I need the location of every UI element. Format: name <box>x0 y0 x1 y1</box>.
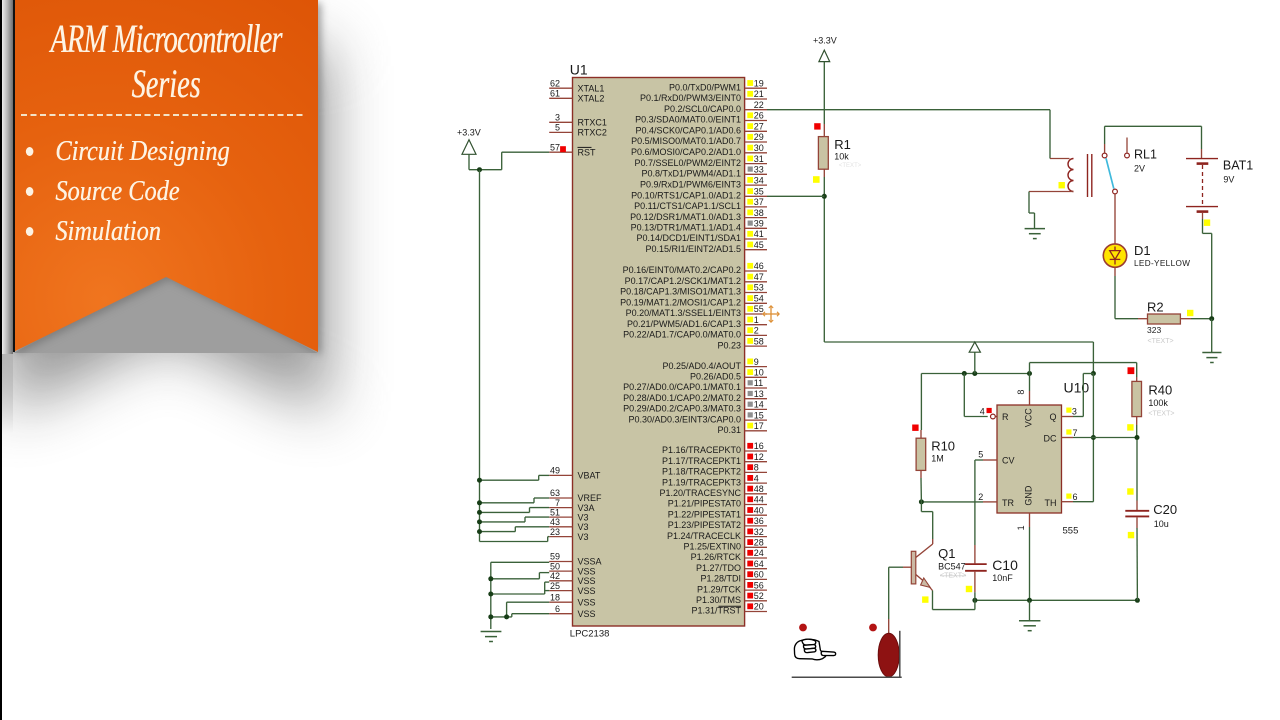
svg-text:P1.21/PIPESTAT0: P1.21/PIPESTAT0 <box>668 499 741 509</box>
svg-text:44: 44 <box>754 495 764 505</box>
svg-text:V3: V3 <box>578 532 589 542</box>
svg-text:39: 39 <box>754 219 764 229</box>
svg-text:U10: U10 <box>1064 380 1090 396</box>
svg-text:21: 21 <box>754 89 764 99</box>
svg-text:<TEXT>: <TEXT> <box>1148 410 1174 417</box>
svg-text:P0.29/AD0.2/CAP0.3/MAT0.3: P0.29/AD0.2/CAP0.3/MAT0.3 <box>623 404 741 414</box>
svg-text:2: 2 <box>978 492 983 502</box>
svg-text:BC547: BC547 <box>938 562 966 572</box>
svg-text:11: 11 <box>754 378 763 388</box>
svg-text:29: 29 <box>754 132 764 142</box>
svg-text:P0.7/SSEL0/PWM2/EINT2: P0.7/SSEL0/PWM2/EINT2 <box>634 158 741 168</box>
svg-text:3: 3 <box>1072 407 1077 417</box>
svg-text:51: 51 <box>550 507 560 517</box>
svg-text:P0.27/AD0.0/CAP0.1/MAT0.1: P0.27/AD0.0/CAP0.1/MAT0.1 <box>623 382 741 392</box>
svg-text:LPC2138: LPC2138 <box>570 629 610 640</box>
svg-text:VSS: VSS <box>578 566 596 576</box>
svg-text:P1.31/TRST: P1.31/TRST <box>691 606 741 616</box>
svg-text:Q1: Q1 <box>938 546 955 561</box>
svg-text:P0.14/DCD1/EINT1/SDA1: P0.14/DCD1/EINT1/SDA1 <box>636 233 741 243</box>
svg-text:25: 25 <box>550 581 560 591</box>
svg-text:P1.24/TRACECLK: P1.24/TRACECLK <box>667 531 741 541</box>
svg-text:33: 33 <box>754 165 764 175</box>
svg-text:1: 1 <box>754 315 759 325</box>
svg-text:+3.3V: +3.3V <box>457 128 481 138</box>
svg-text:3: 3 <box>555 113 560 123</box>
svg-text:R40: R40 <box>1148 382 1172 397</box>
svg-text:VBAT: VBAT <box>578 471 601 481</box>
svg-text:P1.29/TCK: P1.29/TCK <box>697 584 741 594</box>
svg-text:P0.15/RI1/EINT2/AD1.5: P0.15/RI1/EINT2/AD1.5 <box>645 244 741 254</box>
svg-text:1M: 1M <box>931 454 944 464</box>
svg-text:50: 50 <box>550 561 560 571</box>
svg-text:42: 42 <box>550 571 560 581</box>
svg-text:4: 4 <box>980 407 985 417</box>
svg-text:DC: DC <box>1044 434 1057 444</box>
svg-text:TR: TR <box>1002 498 1014 508</box>
svg-text:64: 64 <box>754 559 764 569</box>
svg-text:32: 32 <box>754 527 764 537</box>
svg-text:24: 24 <box>754 548 764 558</box>
svg-text:VSSA: VSSA <box>578 557 602 567</box>
svg-text:VSS: VSS <box>578 576 596 586</box>
svg-text:P1.20/TRACESYNC: P1.20/TRACESYNC <box>659 488 741 498</box>
svg-text:P0.21/PWM5/AD1.6/CAP1.3: P0.21/PWM5/AD1.6/CAP1.3 <box>627 319 741 329</box>
svg-text:P0.17/CAP1.2/SCK1/MAT1.2: P0.17/CAP1.2/SCK1/MAT1.2 <box>625 276 741 286</box>
svg-text:R2: R2 <box>1147 300 1164 315</box>
svg-text:P1.16/TRACEPKT0: P1.16/TRACEPKT0 <box>662 445 741 455</box>
svg-text:8: 8 <box>754 463 759 473</box>
svg-text:17: 17 <box>754 421 764 431</box>
svg-text:31: 31 <box>754 154 764 164</box>
svg-text:V3A: V3A <box>578 503 595 513</box>
svg-text:VSS: VSS <box>578 609 596 619</box>
svg-text:P0.9/RxD1/PWM6/EINT3: P0.9/RxD1/PWM6/EINT3 <box>640 179 741 189</box>
svg-text:XTAL2: XTAL2 <box>578 94 605 104</box>
svg-text:5: 5 <box>555 123 560 133</box>
svg-text:+3.3V: +3.3V <box>813 36 837 46</box>
svg-text:38: 38 <box>754 208 764 218</box>
svg-text:56: 56 <box>754 580 764 590</box>
svg-text:52: 52 <box>754 591 764 601</box>
svg-text:41: 41 <box>754 229 764 239</box>
svg-text:37: 37 <box>754 197 764 207</box>
svg-text:P0.19/MAT1.2/MOSI1/CAP1.2: P0.19/MAT1.2/MOSI1/CAP1.2 <box>620 298 741 308</box>
svg-text:RTXC2: RTXC2 <box>578 128 607 138</box>
svg-text:9: 9 <box>754 357 759 367</box>
svg-text:V3: V3 <box>578 512 589 522</box>
svg-text:R10: R10 <box>931 439 955 454</box>
svg-text:23: 23 <box>550 527 560 537</box>
svg-text:555: 555 <box>1063 526 1079 537</box>
svg-text:P1.23/PIPESTAT2: P1.23/PIPESTAT2 <box>668 520 741 530</box>
svg-text:C20: C20 <box>1153 502 1177 517</box>
svg-text:P0.23: P0.23 <box>717 340 741 350</box>
svg-text:43: 43 <box>550 517 560 527</box>
svg-text:5: 5 <box>978 449 983 459</box>
svg-text:63: 63 <box>550 488 560 498</box>
svg-text:46: 46 <box>754 261 764 271</box>
svg-text:P1.19/TRACEPKT3: P1.19/TRACEPKT3 <box>662 477 741 487</box>
svg-text:8: 8 <box>1016 390 1026 395</box>
svg-text:P0.13/DTR1/MAT1.1/AD1.4: P0.13/DTR1/MAT1.1/AD1.4 <box>631 223 741 233</box>
svg-text:15: 15 <box>754 410 764 420</box>
svg-text:<TEXT>: <TEXT> <box>1148 338 1174 345</box>
svg-text:LED-YELLOW: LED-YELLOW <box>1134 259 1190 268</box>
svg-text:1: 1 <box>1016 525 1026 530</box>
svg-text:61: 61 <box>550 89 560 99</box>
svg-text:13: 13 <box>754 389 764 399</box>
svg-text:P0.31: P0.31 <box>717 425 741 435</box>
svg-text:P1.27/TDO: P1.27/TDO <box>696 563 741 573</box>
svg-text:P0.2/SCL0/CAP0.0: P0.2/SCL0/CAP0.0 <box>664 104 741 114</box>
svg-text:9V: 9V <box>1223 174 1234 184</box>
svg-text:R: R <box>1002 412 1009 422</box>
svg-text:<TEXT>: <TEXT> <box>839 163 862 169</box>
svg-text:TH: TH <box>1045 498 1057 508</box>
svg-text:55: 55 <box>754 304 764 314</box>
svg-text:16: 16 <box>754 441 764 451</box>
svg-text:VSS: VSS <box>578 597 596 607</box>
svg-text:V3: V3 <box>578 522 589 532</box>
svg-text:7: 7 <box>1073 428 1078 438</box>
svg-text:49: 49 <box>550 466 560 476</box>
svg-text:P0.8/TxD1/PWM4/AD1.1: P0.8/TxD1/PWM4/AD1.1 <box>641 169 741 179</box>
svg-text:P1.18/TRACEPKT2: P1.18/TRACEPKT2 <box>662 467 741 477</box>
svg-text:4: 4 <box>754 473 759 483</box>
svg-text:CV: CV <box>1002 456 1015 466</box>
svg-text:19: 19 <box>754 78 764 88</box>
svg-text:D1: D1 <box>1134 243 1151 258</box>
svg-text:P1.25/EXTIN0: P1.25/EXTIN0 <box>683 542 741 552</box>
svg-text:P0.26/AD0.5: P0.26/AD0.5 <box>690 372 741 382</box>
svg-text:27: 27 <box>754 122 764 132</box>
svg-text:26: 26 <box>754 111 764 121</box>
svg-text:BAT1: BAT1 <box>1223 159 1253 173</box>
svg-text:P0.4/SCK0/CAP0.1/AD0.6: P0.4/SCK0/CAP0.1/AD0.6 <box>635 126 741 136</box>
svg-text:P1.26/RTCK: P1.26/RTCK <box>691 552 741 562</box>
svg-text:<TEXT>: <TEXT> <box>940 573 966 580</box>
svg-text:2: 2 <box>754 326 759 336</box>
svg-text:XTAL1: XTAL1 <box>578 83 605 93</box>
svg-text:2V: 2V <box>1134 164 1145 174</box>
svg-text:20: 20 <box>754 602 764 612</box>
svg-text:40: 40 <box>754 505 764 515</box>
svg-text:P1.30/TMS: P1.30/TMS <box>696 595 741 605</box>
svg-text:35: 35 <box>754 187 764 197</box>
svg-text:P0.16/EINT0/MAT0.2/CAP0.2: P0.16/EINT0/MAT0.2/CAP0.2 <box>623 265 741 275</box>
svg-text:P0.6/MOSI0/CAP0.2/AD1.0: P0.6/MOSI0/CAP0.2/AD1.0 <box>631 147 741 157</box>
svg-text:10u: 10u <box>1154 519 1169 529</box>
svg-text:12: 12 <box>754 452 764 462</box>
svg-text:323: 323 <box>1147 325 1161 335</box>
svg-text:60: 60 <box>754 570 764 580</box>
svg-text:P0.0/TxD0/PWM1: P0.0/TxD0/PWM1 <box>669 82 741 92</box>
svg-text:C10: C10 <box>992 557 1018 573</box>
svg-text:54: 54 <box>754 294 764 304</box>
svg-text:10nF: 10nF <box>992 573 1013 583</box>
svg-text:U1: U1 <box>570 62 588 78</box>
svg-text:45: 45 <box>754 240 764 250</box>
svg-text:62: 62 <box>550 78 560 88</box>
svg-text:14: 14 <box>754 400 764 410</box>
svg-text:30: 30 <box>754 143 764 153</box>
svg-text:47: 47 <box>754 272 764 282</box>
svg-text:7: 7 <box>555 498 560 508</box>
svg-text:53: 53 <box>754 283 764 293</box>
svg-text:100k: 100k <box>1148 398 1168 408</box>
svg-text:P0.20/MAT1.3/SSEL1/EINT3: P0.20/MAT1.3/SSEL1/EINT3 <box>626 308 741 318</box>
svg-text:P0.11/CTS1/CAP1.1/SCL1: P0.11/CTS1/CAP1.1/SCL1 <box>634 201 741 211</box>
svg-text:6: 6 <box>555 604 560 614</box>
svg-text:22: 22 <box>754 100 764 110</box>
svg-text:P0.12/DSR1/MAT1.0/AD1.3: P0.12/DSR1/MAT1.0/AD1.3 <box>630 212 741 222</box>
svg-text:P1.22/PIPESTAT1: P1.22/PIPESTAT1 <box>668 509 741 519</box>
svg-text:VCC: VCC <box>1024 408 1034 428</box>
svg-text:58: 58 <box>754 336 764 346</box>
svg-text:RL1: RL1 <box>1134 148 1157 162</box>
svg-text:P0.1/RxD0/PWM3/EINT0: P0.1/RxD0/PWM3/EINT0 <box>640 93 741 103</box>
svg-text:18: 18 <box>550 592 560 602</box>
svg-text:GND: GND <box>1024 485 1034 506</box>
svg-text:48: 48 <box>754 484 764 494</box>
svg-text:P0.30/AD0.3/EINT3/CAP0.0: P0.30/AD0.3/EINT3/CAP0.0 <box>628 414 741 424</box>
svg-text:RTXC1: RTXC1 <box>578 118 607 128</box>
svg-text:6: 6 <box>1073 492 1078 502</box>
svg-text:P0.28/AD0.1/CAP0.2/MAT0.2: P0.28/AD0.1/CAP0.2/MAT0.2 <box>623 393 741 403</box>
svg-text:34: 34 <box>754 175 764 185</box>
svg-text:10k: 10k <box>834 152 849 162</box>
svg-text:P0.18/CAP1.3/MISO1/MAT1.3: P0.18/CAP1.3/MISO1/MAT1.3 <box>620 287 741 297</box>
svg-text:RST: RST <box>578 147 597 157</box>
svg-text:VREF: VREF <box>578 493 603 503</box>
svg-text:P0.25/AD0.4/AOUT: P0.25/AD0.4/AOUT <box>662 361 741 371</box>
svg-text:Q: Q <box>1049 412 1056 422</box>
svg-text:36: 36 <box>754 516 764 526</box>
svg-text:P1.28/TDI: P1.28/TDI <box>700 574 741 584</box>
svg-text:P0.22/AD1.7/CAP0.0/MAT0.0: P0.22/AD1.7/CAP0.0/MAT0.0 <box>623 330 741 340</box>
svg-text:P0.10/RTS1/CAP1.0/AD1.2: P0.10/RTS1/CAP1.0/AD1.2 <box>631 191 741 201</box>
svg-text:10: 10 <box>754 368 764 378</box>
svg-text:57: 57 <box>550 142 560 152</box>
svg-text:59: 59 <box>550 552 560 562</box>
svg-text:R1: R1 <box>834 137 851 152</box>
svg-text:VSS: VSS <box>578 586 596 596</box>
svg-text:P0.3/SDA0/MAT0.0/EINT1: P0.3/SDA0/MAT0.0/EINT1 <box>635 115 741 125</box>
svg-text:28: 28 <box>754 538 764 548</box>
svg-text:P1.17/TRACEPKT1: P1.17/TRACEPKT1 <box>662 456 741 466</box>
svg-text:P0.5/MISO0/MAT0.1/AD0.7: P0.5/MISO0/MAT0.1/AD0.7 <box>631 136 741 146</box>
